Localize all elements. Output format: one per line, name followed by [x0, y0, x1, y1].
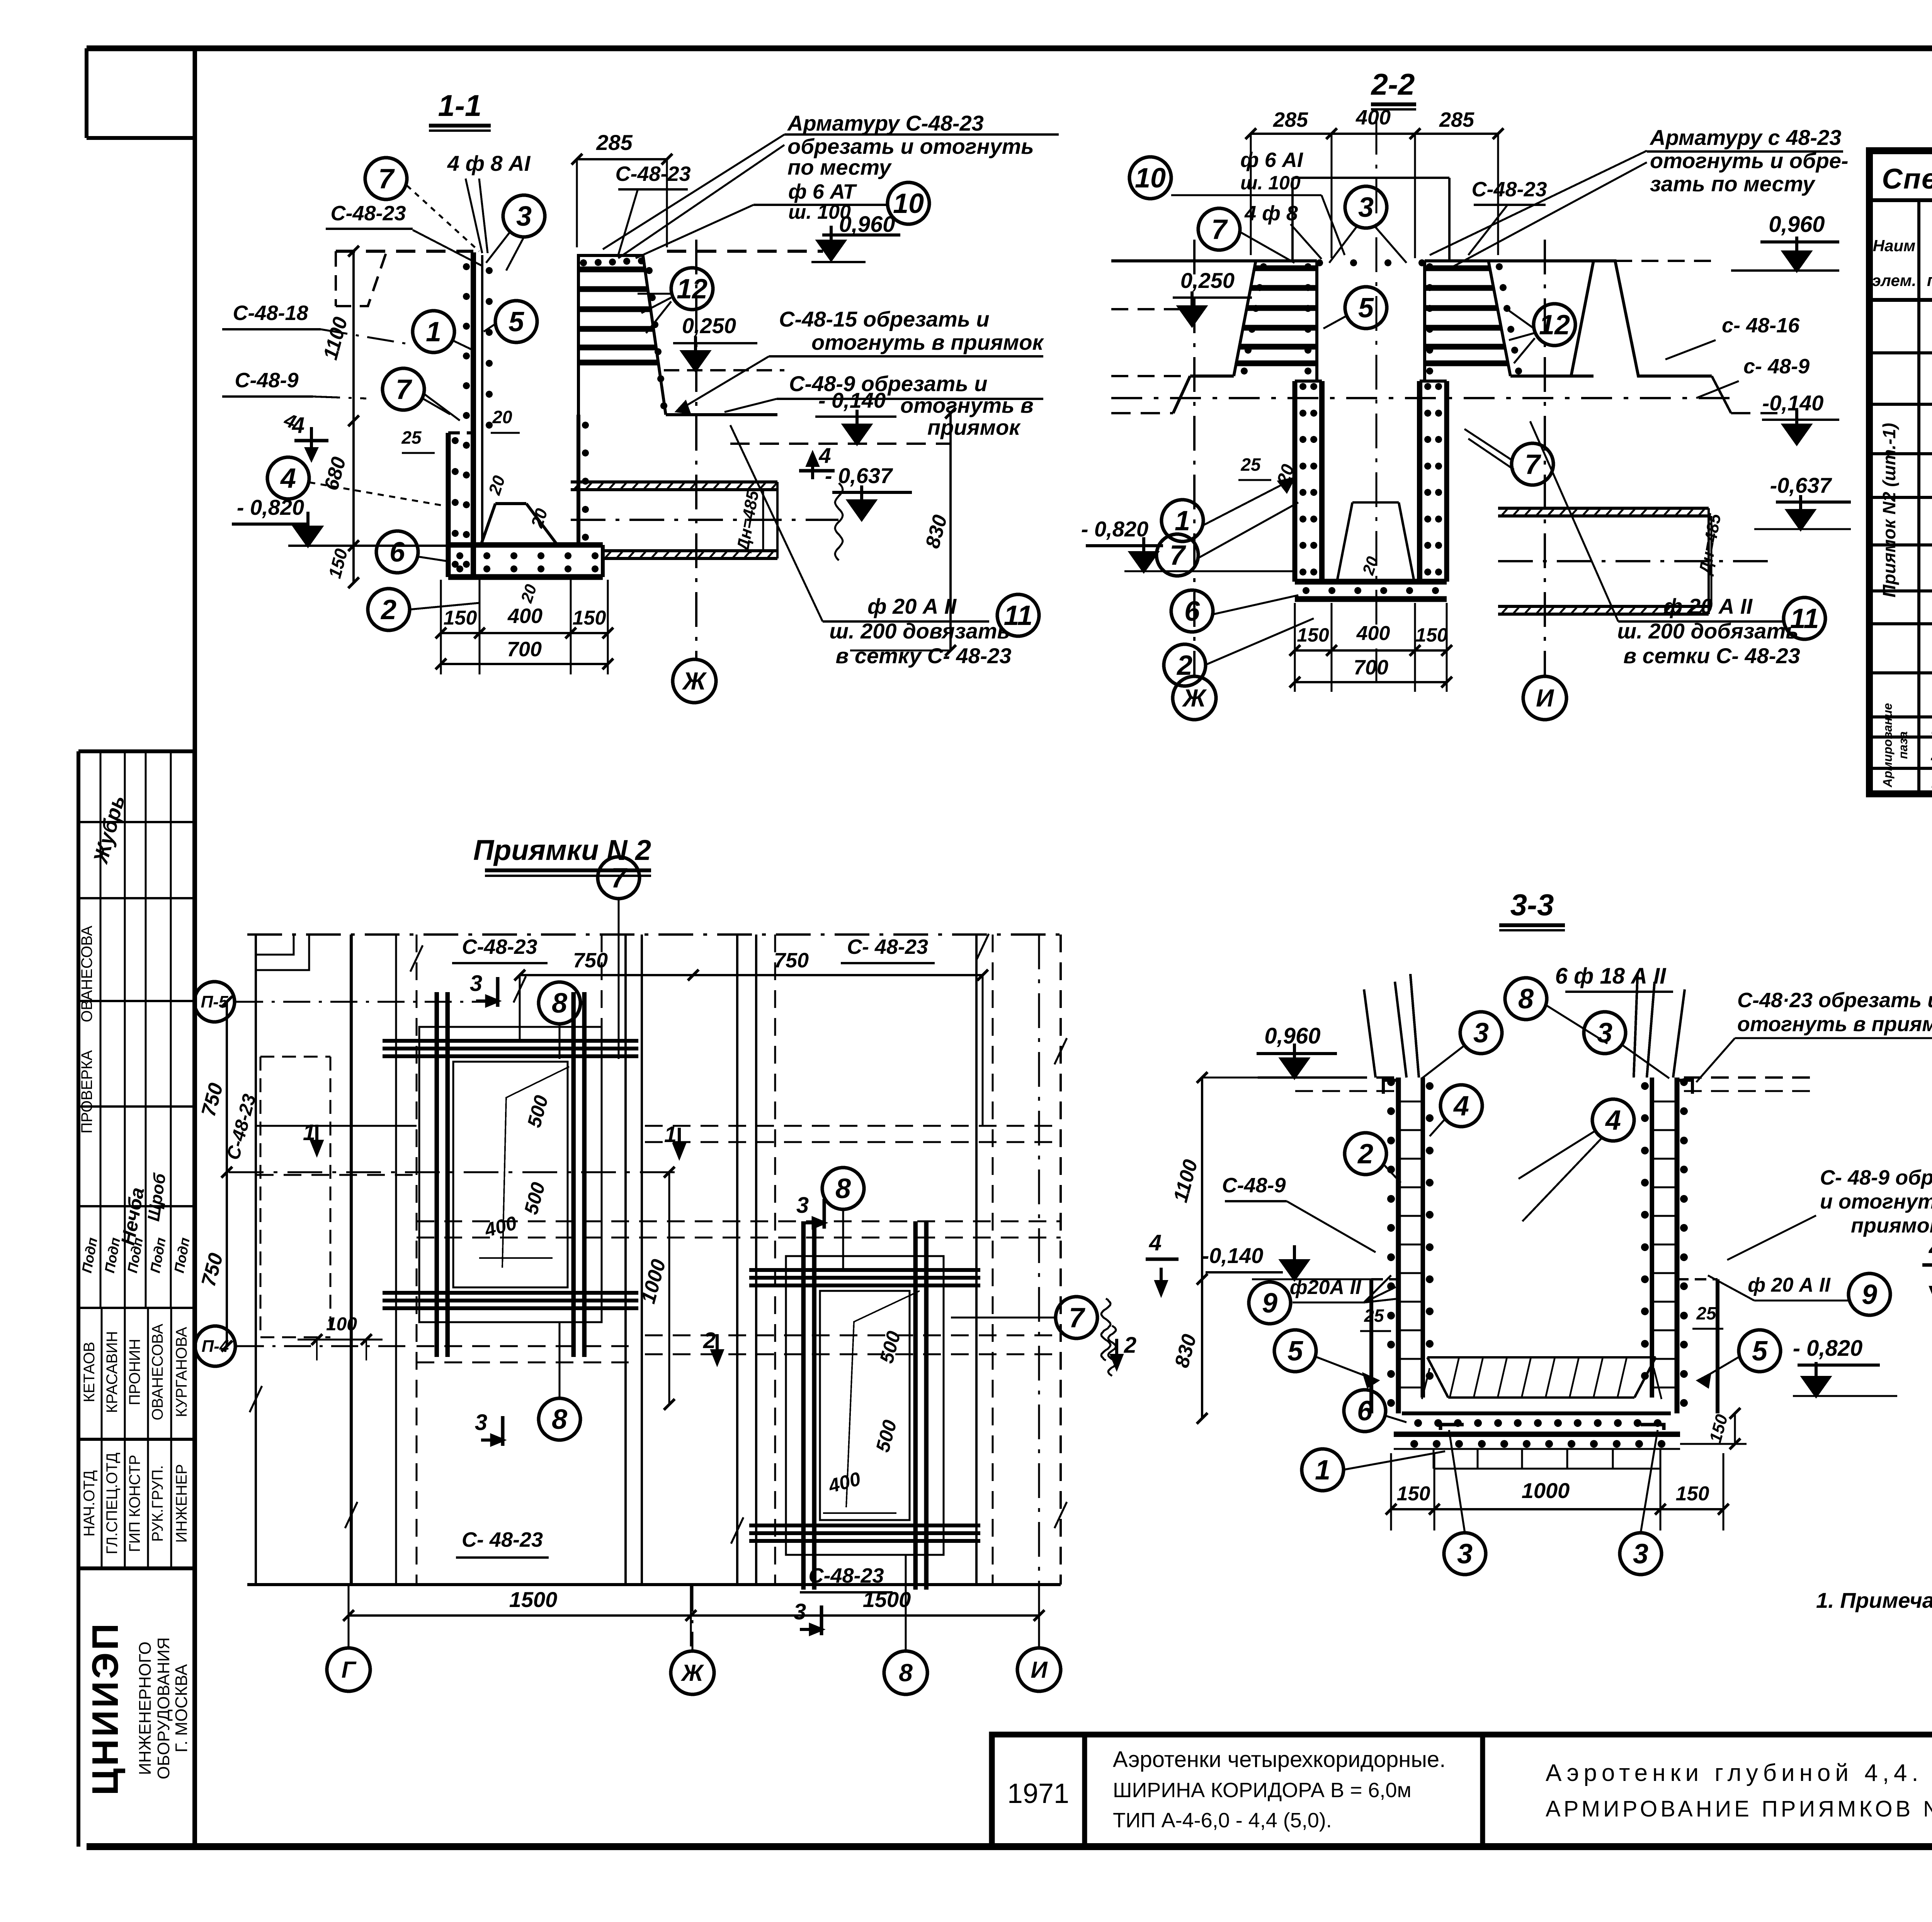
svg-text:150: 150 — [324, 546, 351, 581]
svg-text:отогнуть в приямок: отогнуть в приямок — [811, 330, 1044, 354]
svg-text:150: 150 — [1297, 624, 1329, 646]
svg-text:2: 2 — [1357, 1139, 1373, 1170]
svg-text:РУК.ГРУП.: РУК.ГРУП. — [149, 1465, 166, 1542]
svg-text:1. Примечания см. лист: 1. Примечания см. лист — [1816, 1588, 1932, 1612]
svg-text:ГИП КОНСТР: ГИП КОНСТР — [126, 1455, 143, 1552]
svg-text:11: 11 — [1930, 741, 1932, 765]
svg-text:1100: 1100 — [1169, 1157, 1202, 1205]
svg-text:Приямки N 2: Приямки N 2 — [473, 834, 651, 866]
svg-text:Приямок N2 (шт.-1): Приямок N2 (шт.-1) — [1879, 423, 1899, 598]
svg-text:Арматуру с 48-23: Арматуру с 48-23 — [1649, 125, 1841, 150]
svg-text:ПРОНИН: ПРОНИН — [126, 1339, 143, 1405]
svg-text:750: 750 — [197, 1081, 227, 1119]
svg-text:4: 4 — [1149, 1230, 1162, 1255]
svg-text:с- 48-9: с- 48-9 — [1743, 355, 1810, 378]
border frame — [87, 45, 1932, 51]
svg-text:с- 48-16: с- 48-16 — [1722, 314, 1800, 337]
svg-text:Жубрь: Жубрь — [89, 793, 129, 867]
svg-text:20: 20 — [492, 407, 512, 427]
svg-text:500: 500 — [876, 1329, 905, 1365]
svg-text:10: 10 — [1135, 163, 1166, 194]
svg-text:10: 10 — [893, 188, 924, 219]
svg-text:7: 7 — [1211, 214, 1228, 245]
pit rebar mat — [786, 1256, 944, 1555]
svg-text:700: 700 — [507, 638, 542, 661]
svg-text:400: 400 — [507, 604, 543, 628]
svg-text:6: 6 — [1357, 1396, 1373, 1427]
svg-text:3: 3 — [796, 1193, 809, 1218]
svg-text:750: 750 — [774, 949, 809, 972]
svg-text:-0,140: -0,140 — [1202, 1243, 1264, 1268]
svg-text:Арматуру С-48-23: Арматуру С-48-23 — [787, 111, 984, 135]
svg-text:Г. МОСКВА: Г. МОСКВА — [172, 1664, 191, 1752]
title block — [992, 1735, 1932, 1847]
svg-text:ОВАНЕСОВА: ОВАНЕСОВА — [149, 1324, 166, 1420]
svg-text:1100: 1100 — [319, 315, 352, 362]
svg-text:12: 12 — [677, 274, 707, 305]
2-2 floor slab hatched strips — [1498, 507, 1709, 510]
svg-text:5: 5 — [1752, 1336, 1768, 1367]
plan wall lines — [255, 935, 257, 1585]
svg-text:7: 7 — [1170, 540, 1186, 571]
svg-text:700: 700 — [1354, 656, 1388, 679]
svg-text:750: 750 — [197, 1251, 227, 1289]
1-1 callout circles — [365, 158, 407, 199]
1-1 axis Ж — [695, 240, 697, 659]
svg-text:приямок: приямок — [927, 415, 1021, 439]
svg-text:приямок: приямок — [1851, 1214, 1932, 1237]
svg-text:ОВАНЕСОВА: ОВАНЕСОВА — [78, 926, 95, 1022]
svg-text:4 ф 8 АІ: 4 ф 8 АІ — [447, 151, 531, 175]
svg-text:КЕТАОВ: КЕТАОВ — [81, 1342, 98, 1403]
svg-text:ОБОРУДОВАНИЯ: ОБОРУДОВАНИЯ — [154, 1637, 173, 1779]
pit rebar mat — [419, 1027, 602, 1322]
svg-text:500: 500 — [520, 1180, 549, 1217]
svg-text:5: 5 — [509, 306, 524, 337]
svg-text:в сетки С- 48-23: в сетки С- 48-23 — [1623, 644, 1800, 668]
svg-text:Аэротенки глубиной 4,4. Днище.: Аэротенки глубиной 4,4. Днище. — [1546, 1760, 1932, 1786]
svg-text:25: 25 — [1364, 1306, 1384, 1326]
plan grid circles П-5 П-4 — [194, 982, 235, 1022]
svg-text:1: 1 — [1315, 1455, 1330, 1486]
svg-text:285: 285 — [1273, 108, 1308, 131]
svg-text:ф20А ІІ: ф20А ІІ — [1290, 1276, 1362, 1299]
svg-text:750: 750 — [573, 949, 608, 972]
svg-text:и отогнуть в: и отогнуть в — [1820, 1190, 1932, 1213]
2-2 axes Ж and И — [1193, 240, 1196, 676]
svg-text:Г: Г — [342, 1657, 357, 1683]
3-3 bottom slab — [1402, 1411, 1671, 1415]
svg-text:0,960: 0,960 — [1264, 1023, 1320, 1049]
plan dashed bands — [645, 1125, 1061, 1127]
svg-text:Ж: Ж — [680, 1660, 704, 1686]
svg-text:С-48·23 обрезать и: С-48·23 обрезать и — [1737, 989, 1932, 1012]
2-2 rib trapezoids with rebar — [1234, 261, 1317, 376]
svg-text:2: 2 — [380, 594, 396, 625]
svg-text:С- 48-23: С- 48-23 — [462, 1528, 543, 1551]
svg-text:3: 3 — [1358, 192, 1374, 223]
svg-text:0,960: 0,960 — [839, 212, 895, 237]
svg-text:5: 5 — [1358, 293, 1374, 323]
svg-text:830: 830 — [921, 512, 951, 551]
svg-text:АРМИРОВАНИЕ ПРИЯМКОВ №2.: АРМИРОВАНИЕ ПРИЯМКОВ №2. — [1546, 1796, 1932, 1822]
svg-text:3: 3 — [794, 1599, 806, 1624]
svg-text:285: 285 — [596, 130, 633, 155]
svg-text:4: 4 — [1605, 1105, 1621, 1136]
svg-text:3: 3 — [475, 1410, 487, 1435]
svg-text:0,960: 0,960 — [1769, 212, 1825, 237]
svg-text:7: 7 — [1069, 1302, 1085, 1333]
svg-text:500: 500 — [872, 1418, 901, 1454]
svg-text:285: 285 — [1439, 108, 1475, 131]
svg-text:-0,637: -0,637 — [1770, 473, 1833, 497]
svg-text:ТИП А-4-6,0 - 4,4 (5,0).: ТИП А-4-6,0 - 4,4 (5,0). — [1113, 1809, 1332, 1832]
svg-text:3-3: 3-3 — [1510, 888, 1554, 922]
svg-text:по месту: по месту — [787, 155, 892, 179]
svg-text:400: 400 — [1356, 622, 1390, 645]
1-1 left dimension chain 1100/680/150 — [352, 251, 355, 583]
svg-text:7: 7 — [611, 863, 628, 894]
svg-text:ш. 100: ш. 100 — [1240, 172, 1301, 194]
svg-text:ЦНИИЭП: ЦНИИЭП — [85, 1621, 126, 1796]
svg-text:Наим: Наим — [1873, 237, 1915, 255]
svg-text:5: 5 — [1287, 1336, 1303, 1367]
svg-text:500: 500 — [523, 1093, 553, 1130]
svg-text:С-48-23: С-48-23 — [1471, 178, 1547, 201]
svg-text:20: 20 — [517, 582, 540, 605]
svg-text:9: 9 — [1862, 1279, 1877, 1310]
svg-text:С-48-23: С-48-23 — [808, 1564, 884, 1587]
plan grid axis circles Г Ж 8 И — [327, 1648, 370, 1691]
svg-text:3: 3 — [516, 201, 532, 232]
svg-text:ф 20 А ІІ: ф 20 А ІІ — [1748, 1274, 1831, 1296]
svg-text:150: 150 — [444, 607, 477, 629]
svg-text:ГЛ.СПЕЦ.ОТД: ГЛ.СПЕЦ.ОТД — [104, 1452, 121, 1554]
svg-text:6: 6 — [389, 537, 405, 568]
svg-text:Ж: Ж — [682, 667, 707, 695]
svg-text:ф 20 А ІІ: ф 20 А ІІ — [867, 594, 957, 618]
svg-text:3: 3 — [1597, 1018, 1612, 1049]
plan bottom dims 1500/1500 — [349, 1614, 1039, 1617]
svg-text:НАЧ.ОТД: НАЧ.ОТД — [81, 1470, 98, 1537]
svg-text:1: 1 — [1175, 506, 1190, 536]
svg-text:7: 7 — [378, 163, 395, 194]
svg-text:ф 6 АТ: ф 6 АТ — [788, 180, 857, 203]
svg-text:ф 20 А ІІ: ф 20 А ІІ — [1663, 594, 1753, 618]
svg-text:150: 150 — [1415, 624, 1448, 646]
2-2 top dims 285/400/285 — [1251, 133, 1498, 135]
2-2 pit walls — [1319, 381, 1325, 582]
svg-text:150: 150 — [1676, 1483, 1709, 1505]
svg-text:100: 100 — [326, 1314, 357, 1335]
svg-text:8: 8 — [552, 1404, 567, 1435]
left sidebar stamp column — [78, 749, 194, 753]
svg-text:2-2: 2-2 — [1371, 67, 1415, 101]
svg-text:отогнуть и обре-: отогнуть и обре- — [1650, 148, 1849, 173]
svg-text:- 0,637: - 0,637 — [825, 463, 893, 488]
svg-text:7: 7 — [396, 374, 412, 405]
svg-text:3: 3 — [1457, 1539, 1473, 1570]
svg-text:6: 6 — [1184, 596, 1200, 627]
svg-text:ИНЖЕНЕРНОГО: ИНЖЕНЕРНОГО — [136, 1641, 155, 1775]
svg-text:25: 25 — [1696, 1303, 1717, 1323]
svg-text:Подп: Подп — [171, 1236, 193, 1274]
svg-text:9: 9 — [1262, 1288, 1277, 1319]
svg-text:1: 1 — [426, 317, 441, 347]
svg-text:отогнуть в приямок: отогнуть в приямок — [1737, 1013, 1932, 1036]
svg-text:в сетку С- 48-23: в сетку С- 48-23 — [835, 644, 1011, 668]
svg-text:Щроб: Щроб — [144, 1171, 170, 1222]
svg-text:2: 2 — [1124, 1333, 1136, 1358]
svg-text:25: 25 — [1240, 455, 1261, 475]
svg-text:ИНЖЕНЕР: ИНЖЕНЕР — [173, 1464, 190, 1543]
svg-text:ПРОВЕРКА: ПРОВЕРКА — [78, 1050, 95, 1134]
svg-text:8: 8 — [899, 1659, 913, 1687]
svg-text:1971: 1971 — [1007, 1778, 1069, 1809]
svg-text:0,250: 0,250 — [682, 313, 736, 338]
svg-text:поз: поз — [1927, 271, 1932, 290]
svg-text:-0,140: -0,140 — [1762, 391, 1824, 415]
svg-text:25: 25 — [401, 427, 422, 448]
svg-text:КУРГАНОВА: КУРГАНОВА — [173, 1327, 190, 1417]
svg-text:400: 400 — [1355, 106, 1391, 129]
svg-text:8: 8 — [552, 988, 567, 1019]
svg-text:С-48-9: С-48-9 — [235, 369, 298, 392]
svg-text:С- 48-9 обрезать: С- 48-9 обрезать — [1820, 1166, 1932, 1189]
svg-text:П-4: П-4 — [202, 1337, 229, 1356]
svg-text:ШИРИНА КОРИДОРА В = 6,0м: ШИРИНА КОРИДОРА В = 6,0м — [1113, 1779, 1412, 1802]
specification table — [1869, 151, 1932, 794]
svg-text:4: 4 — [280, 463, 296, 494]
svg-text:1000: 1000 — [1522, 1478, 1570, 1503]
svg-text:С-48-9: С-48-9 — [1222, 1174, 1286, 1197]
svg-text:3: 3 — [470, 971, 482, 996]
svg-text:150: 150 — [1397, 1483, 1430, 1505]
2-2 bottom dims — [1294, 603, 1296, 692]
svg-text:КРАСАВИН: КРАСАВИН — [104, 1331, 121, 1413]
svg-text:150: 150 — [573, 607, 606, 629]
svg-text:зать по месту: зать по месту — [1650, 172, 1816, 196]
svg-text:Подп: Подп — [147, 1236, 169, 1274]
svg-text:ф 6 АІ: ф 6 АІ — [1240, 148, 1303, 172]
svg-text:3: 3 — [1473, 1018, 1489, 1049]
svg-text:11: 11 — [1790, 603, 1819, 634]
svg-text:Подп: Подп — [102, 1236, 123, 1274]
svg-text:1500: 1500 — [863, 1587, 911, 1612]
svg-text:Армирование: Армирование — [1881, 703, 1895, 788]
3-3 pit walls with rebar ladders — [1396, 1078, 1401, 1413]
svg-text:150: 150 — [1706, 1412, 1731, 1445]
svg-text:И: И — [1536, 684, 1554, 712]
svg-text:Аэротенки четырехкоридорные.: Аэротенки четырехкоридорные. — [1113, 1747, 1446, 1772]
svg-text:С-48-18: С-48-18 — [233, 301, 308, 325]
svg-text:400: 400 — [826, 1468, 863, 1497]
svg-text:20: 20 — [1359, 554, 1381, 577]
svg-text:0,250: 0,250 — [1180, 268, 1235, 293]
svg-text:7: 7 — [1525, 449, 1541, 480]
svg-text:- 0,140: - 0,140 — [818, 388, 886, 412]
svg-text:3: 3 — [1633, 1539, 1648, 1570]
svg-text:8: 8 — [835, 1173, 851, 1204]
svg-text:Дн=485: Дн=485 — [1695, 512, 1725, 577]
svg-text:П-5: П-5 — [201, 992, 228, 1011]
svg-text:отогнуть в: отогнуть в — [900, 393, 1034, 417]
svg-text:8: 8 — [1518, 984, 1534, 1015]
svg-text:паза: паза — [1896, 731, 1910, 759]
svg-text:- 0,820: - 0,820 — [1793, 1336, 1863, 1361]
svg-text:4: 4 — [1453, 1091, 1469, 1122]
svg-text:1-1: 1-1 — [438, 89, 482, 123]
svg-text:С-48-23: С-48-23 — [462, 935, 537, 958]
svg-text:Ж: Ж — [1182, 684, 1207, 712]
CNIIEP institute box — [77, 1568, 80, 1847]
svg-text:С-48-23: С-48-23 — [330, 202, 406, 225]
svg-text:830: 830 — [1170, 1332, 1201, 1370]
svg-text:20: 20 — [485, 473, 509, 497]
svg-text:4 ф 8: 4 ф 8 — [1244, 202, 1298, 225]
svg-text:6 ф 18 А ІІ: 6 ф 18 А ІІ — [1555, 964, 1667, 989]
plan top dims 750/750 — [520, 974, 983, 976]
1-1 bottom dims 150/400/150/700 — [440, 580, 442, 674]
svg-text:1500: 1500 — [509, 1587, 558, 1612]
svg-text:И: И — [1031, 1657, 1048, 1683]
svg-text:С- 48-23: С- 48-23 — [847, 935, 928, 958]
svg-text:С-48-15 обрезать и: С-48-15 обрезать и — [779, 307, 990, 331]
svg-text:элем.: элем. — [1872, 271, 1917, 289]
svg-text:С-48-23: С-48-23 — [615, 162, 690, 186]
svg-text:- 0,820: - 0,820 — [1081, 517, 1148, 541]
svg-text:Спецификация арматуры на эл: Спецификация арматуры на элемент — [1882, 163, 1932, 195]
svg-text:Подп: Подп — [79, 1236, 100, 1274]
svg-text:11: 11 — [1004, 600, 1033, 631]
svg-text:С-48-23: С-48-23 — [223, 1092, 260, 1162]
svg-text:Дн=485: Дн=485 — [733, 489, 762, 554]
svg-text:4: 4 — [1929, 1236, 1932, 1261]
